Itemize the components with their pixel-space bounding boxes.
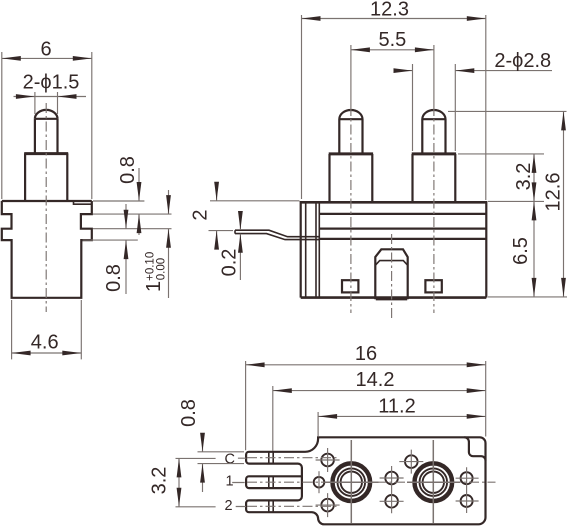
bottom view top-right inner notch curve	[464, 437, 485, 460]
dim 4.6 line	[12, 352, 82, 354]
svg-text:16: 16	[355, 343, 377, 365]
bottom view row centerlines	[247, 458, 496, 507]
dim 3.2 bottom view line	[149, 458, 182, 506]
svg-text:2: 2	[190, 209, 212, 220]
dim 2-phi1.5 extension lines	[35, 92, 58, 114]
front view right terminal square	[425, 280, 441, 292]
dim 12.6 line	[543, 111, 566, 297]
dim 14.2 extension line	[272, 386, 274, 451]
side view centerline	[45, 103, 47, 312]
big circle left	[325, 440, 379, 523]
dim 11.2 line	[318, 415, 486, 417]
dim 12.6 extension line top	[448, 110, 567, 112]
dim 12.3 extension lines	[302, 15, 486, 200]
front view left terminal square	[342, 280, 358, 292]
dim 0.8 bottom view extension lines	[198, 452, 245, 464]
dim 3.2 line	[513, 154, 536, 202]
dim 6.5/12.6 bottom extension line	[488, 296, 567, 298]
svg-text:C: C	[225, 451, 235, 467]
svg-text:3.2: 3.2	[513, 163, 535, 191]
front view lever terminal	[235, 230, 319, 239]
dim 0.8 upper	[117, 156, 141, 235]
dim 0.2 line	[219, 211, 243, 280]
side view plunger dome	[35, 110, 58, 119]
svg-text:5.5: 5.5	[378, 29, 406, 51]
side view body outline	[2, 201, 92, 298]
svg-text:2-ϕ2.8: 2-ϕ2.8	[494, 50, 551, 72]
bottom view body outline	[246, 437, 485, 524]
dim 2-phi2.8 extension lines	[413, 64, 456, 151]
svg-text:2-ϕ1.5: 2-ϕ1.5	[23, 72, 80, 94]
front view left plunger	[329, 110, 373, 203]
svg-text:1: 1	[226, 473, 234, 489]
small hole circles	[314, 448, 479, 517]
dim 2 extension lines	[209, 201, 300, 231]
dim 6.5 line	[510, 201, 536, 297]
dim 4.6 extension lines	[12, 300, 82, 359]
big circle right	[407, 440, 461, 523]
svg-text:6: 6	[40, 39, 51, 61]
bottom view terminal 1 strip	[246, 476, 302, 488]
svg-text:3.2: 3.2	[149, 467, 171, 495]
terminal labels C 1 2	[225, 451, 247, 514]
dim 2 line	[190, 182, 220, 250]
svg-text:12.3: 12.3	[370, 0, 409, 20]
dim 6 extension lines	[2, 52, 92, 199]
front view body outline	[301, 201, 487, 298]
dim 16 line	[246, 364, 486, 366]
dim 0.8 lower	[103, 204, 128, 294]
dim 2-phi2.8 line	[394, 70, 553, 72]
front view plunger centerlines	[351, 45, 434, 313]
front view post centerline	[391, 234, 393, 319]
svg-text:0.8: 0.8	[178, 399, 200, 427]
svg-text:14.2: 14.2	[356, 369, 395, 391]
dim 3.2 extension lines	[458, 154, 544, 202]
svg-text:0.8: 0.8	[103, 264, 125, 292]
svg-text:6.5: 6.5	[510, 237, 532, 265]
dim 6 line	[2, 57, 92, 59]
svg-text:11.2: 11.2	[378, 395, 415, 417]
dim 1 +0.10/0.00	[143, 190, 171, 298]
dim 2-phi1.5 line	[14, 96, 87, 98]
front view internal horizontal lines	[319, 214, 486, 239]
svg-text:2: 2	[225, 498, 233, 514]
front view center post	[375, 249, 407, 299]
side view plunger cylinder	[35, 119, 58, 154]
dim 3.2 bottom view extension lines	[176, 458, 216, 506]
side view flange step line	[74, 201, 92, 204]
side view right extension lines 0.8/1/0.8	[83, 201, 172, 240]
side view collar	[24, 153, 68, 201]
svg-text:12.6: 12.6	[543, 173, 565, 212]
terminal bend ticks	[269, 452, 273, 512]
svg-text:0.2: 0.2	[219, 249, 241, 277]
dim 5.5 line	[351, 49, 434, 51]
dim 16 extension line	[246, 361, 486, 450]
svg-text:0.8: 0.8	[117, 156, 139, 184]
dim 11.2 extension line	[317, 412, 319, 436]
svg-text:4.6: 4.6	[31, 332, 59, 354]
front view right plunger	[412, 110, 456, 203]
dim 14.2 line	[273, 390, 486, 392]
dim 12.3 line	[302, 18, 486, 20]
dim 0.8 bottom view line	[178, 399, 205, 492]
